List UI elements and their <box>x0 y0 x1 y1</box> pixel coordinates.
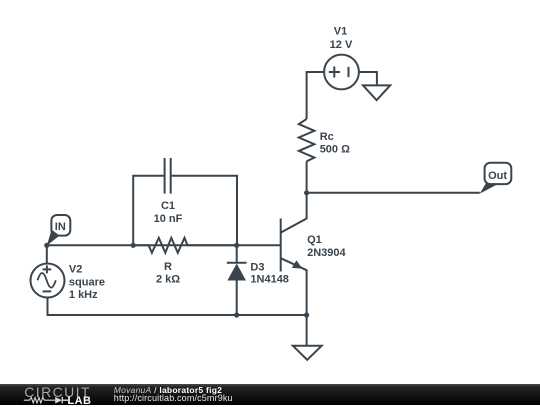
svg-text:IN: IN <box>55 221 66 233</box>
svg-text:1 kHz: 1 kHz <box>69 289 98 301</box>
svg-text:2N3904: 2N3904 <box>307 247 346 259</box>
svg-text:12 V: 12 V <box>330 39 353 51</box>
svg-text:D3: D3 <box>250 261 264 273</box>
svg-text:Out: Out <box>488 170 507 182</box>
svg-text:500 Ω: 500 Ω <box>320 144 350 156</box>
svg-text:2 kΩ: 2 kΩ <box>156 274 180 286</box>
svg-text:Q1: Q1 <box>307 234 322 246</box>
svg-text:V2: V2 <box>69 263 82 275</box>
svg-text:V1: V1 <box>334 26 347 38</box>
svg-text:C1: C1 <box>161 200 175 212</box>
svg-text:1N4148: 1N4148 <box>250 273 289 285</box>
svg-text:square: square <box>69 276 105 288</box>
svg-text:Rc: Rc <box>320 131 334 143</box>
svg-text:R: R <box>164 261 172 273</box>
svg-text:10 nF: 10 nF <box>154 213 183 225</box>
